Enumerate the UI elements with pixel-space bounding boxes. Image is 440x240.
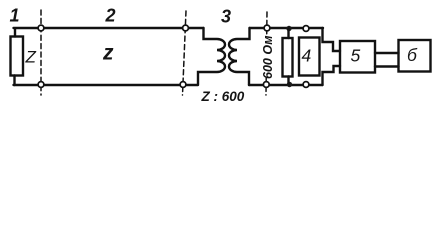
svg-text:1: 1 (10, 6, 20, 26)
resistor 600 Om body (283, 38, 293, 77)
svg-text:б: б (407, 45, 418, 65)
wire (bottom line conductor, left span) (14, 84, 198, 86)
svg-text:600 Ом: 600 Ом (261, 36, 275, 79)
node plane 1 (dashed reference line) (40, 10, 42, 95)
node 1 top terminal (38, 25, 44, 31)
svg-text:2: 2 (105, 6, 116, 26)
terminal bottom of block 4 (303, 82, 309, 88)
svg-text:4: 4 (302, 46, 312, 66)
wire (bottom lead of load resistor) (287, 77, 289, 86)
svg-text:5: 5 (351, 46, 361, 66)
wire (bottom link block 5 to block 6) (375, 65, 399, 67)
node 2 top terminal (183, 25, 189, 31)
junction top of load resistor (286, 26, 291, 31)
node 2 bottom terminal (180, 82, 186, 88)
wire (top link block 5 to block 6) (375, 52, 399, 54)
node plane 3 (dashed reference line) (266, 12, 268, 36)
junction bottom of load resistor (287, 82, 292, 87)
wire (top line conductor, left span) (14, 27, 204, 29)
transformer T1 secondary winding (229, 28, 250, 85)
wire (bottom conductor, right span) (249, 84, 323, 86)
svg-text:3: 3 (221, 7, 231, 27)
transformer T1 primary winding (198, 28, 225, 85)
wire (top link from line to block 5) (323, 28, 341, 51)
node plane 2 (dashed reference line) (183, 11, 187, 95)
svg-text:z: z (102, 42, 114, 65)
svg-text:Z : 600: Z : 600 (201, 89, 245, 104)
svg-text:Z: Z (25, 48, 37, 67)
wire (top lead of load resistor) (287, 29, 289, 39)
wire (bottom lead of Z box) (13, 76, 15, 86)
block 4 box (299, 38, 320, 76)
node 3 top terminal (264, 25, 270, 31)
block 6 box (399, 40, 431, 72)
node 3 bottom terminal (263, 82, 269, 88)
wire (top lead of Z box) (14, 29, 16, 37)
block 5 box (340, 41, 375, 73)
wire (bottom link from line to block 5) (323, 66, 341, 85)
wire (top conductor, right span) (250, 27, 324, 29)
resistor Z (source impedance box) (11, 37, 24, 76)
terminal top of block 4 (303, 26, 309, 32)
node 1 bottom terminal (38, 82, 44, 88)
